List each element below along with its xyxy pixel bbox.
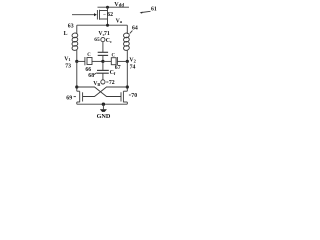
label 64 with leader: [132, 26, 138, 32]
transistor 69 (left NMOS): [77, 91, 83, 104]
leader dash to 72: [106, 81, 108, 83]
label 71: [104, 31, 110, 37]
svg-text:67: 67: [115, 65, 121, 71]
svg-text:L: L: [64, 31, 68, 37]
inductor 64 (right): [123, 25, 130, 61]
svg-text:61: 61: [151, 7, 157, 13]
svg-text:Vdd: Vdd: [114, 1, 124, 9]
node V1 junction dot: [75, 60, 78, 63]
node V2 label: [129, 58, 135, 64]
svg-text:Cf: Cf: [110, 70, 116, 76]
svg-text:71: 71: [104, 31, 110, 37]
varactor 67: [103, 57, 127, 65]
svg-text:V1: V1: [64, 56, 70, 62]
label C (right varactor): [112, 53, 116, 58]
wire cross-coupling V1 to gate of 70: [77, 87, 121, 97]
varactor 66: [85, 57, 103, 65]
node VB label: [93, 81, 100, 87]
svg-text:62: 62: [107, 12, 113, 18]
label 62 with tilde leader: [103, 12, 113, 18]
junction dot tuning node: [101, 60, 104, 63]
capacitor Cc 65: [98, 42, 108, 62]
wire V1 column: [76, 61, 78, 91]
label L: [64, 31, 68, 37]
node V1 label: [64, 56, 70, 62]
node V2 junction dot: [126, 60, 129, 63]
wire Va rail: [77, 24, 128, 26]
svg-text:GND: GND: [97, 113, 111, 120]
terminal VB 72: [101, 80, 105, 84]
node Vc label: [98, 31, 104, 37]
label 66: [85, 67, 91, 73]
svg-text:73: 73: [65, 63, 71, 69]
label Cc: [106, 38, 112, 44]
svg-text:C: C: [87, 53, 91, 58]
junction dot V2 cross-couple: [126, 85, 129, 88]
ground: [100, 104, 107, 112]
svg-text:70: 70: [131, 93, 137, 99]
svg-text:VB: VB: [93, 81, 100, 87]
Vdd power label: [114, 1, 124, 9]
svg-text:63: 63: [68, 23, 74, 29]
label 70 with dash: [131, 93, 137, 99]
wire common source rail: [77, 103, 128, 105]
inductor L 63 (left): [72, 25, 79, 61]
junction dot V1 cross-couple: [75, 85, 78, 88]
svg-text:65: 65: [94, 37, 100, 43]
terminal Vc 71: [101, 38, 105, 42]
svg-text:69: 69: [66, 95, 72, 101]
capacitor Cf 68: [97, 61, 109, 79]
svg-text:V2: V2: [129, 58, 135, 64]
svg-text:68: 68: [88, 73, 94, 79]
svg-text:C: C: [112, 53, 116, 58]
label C (left varactor): [87, 53, 91, 58]
label 68 with leader: [88, 73, 94, 79]
label 74: [130, 65, 136, 71]
wire V2 column: [126, 61, 128, 91]
svg-text:Cc: Cc: [106, 38, 112, 44]
wire varactor row left (V1 to varactor 66): [77, 60, 85, 62]
junction dot ground node: [102, 103, 105, 106]
junction dot Vdd / M62 source: [106, 6, 109, 9]
svg-text:~: ~: [103, 12, 106, 17]
figure number 61 with arrow: [140, 7, 157, 14]
node Va label: [116, 18, 123, 24]
svg-text:72: 72: [109, 80, 115, 86]
label Cf: [110, 70, 116, 76]
svg-text:74: 74: [130, 65, 136, 71]
wire Vdd rail: [98, 6, 130, 8]
svg-text:64: 64: [132, 26, 138, 32]
label 72: [109, 80, 115, 86]
label 63: [68, 23, 74, 29]
label 65: [94, 37, 100, 43]
label 67: [115, 65, 121, 71]
transistor 70 (right NMOS): [121, 91, 127, 104]
GND label: [97, 113, 111, 120]
label 73: [65, 63, 71, 69]
label 69 with dash: [66, 95, 72, 101]
svg-text:Va: Va: [116, 18, 123, 24]
junction dot Va / M62 drain: [106, 24, 109, 27]
wire cross-coupling V2 to gate of 69: [83, 87, 128, 97]
transistor 62 (PMOS current source): [72, 7, 108, 25]
